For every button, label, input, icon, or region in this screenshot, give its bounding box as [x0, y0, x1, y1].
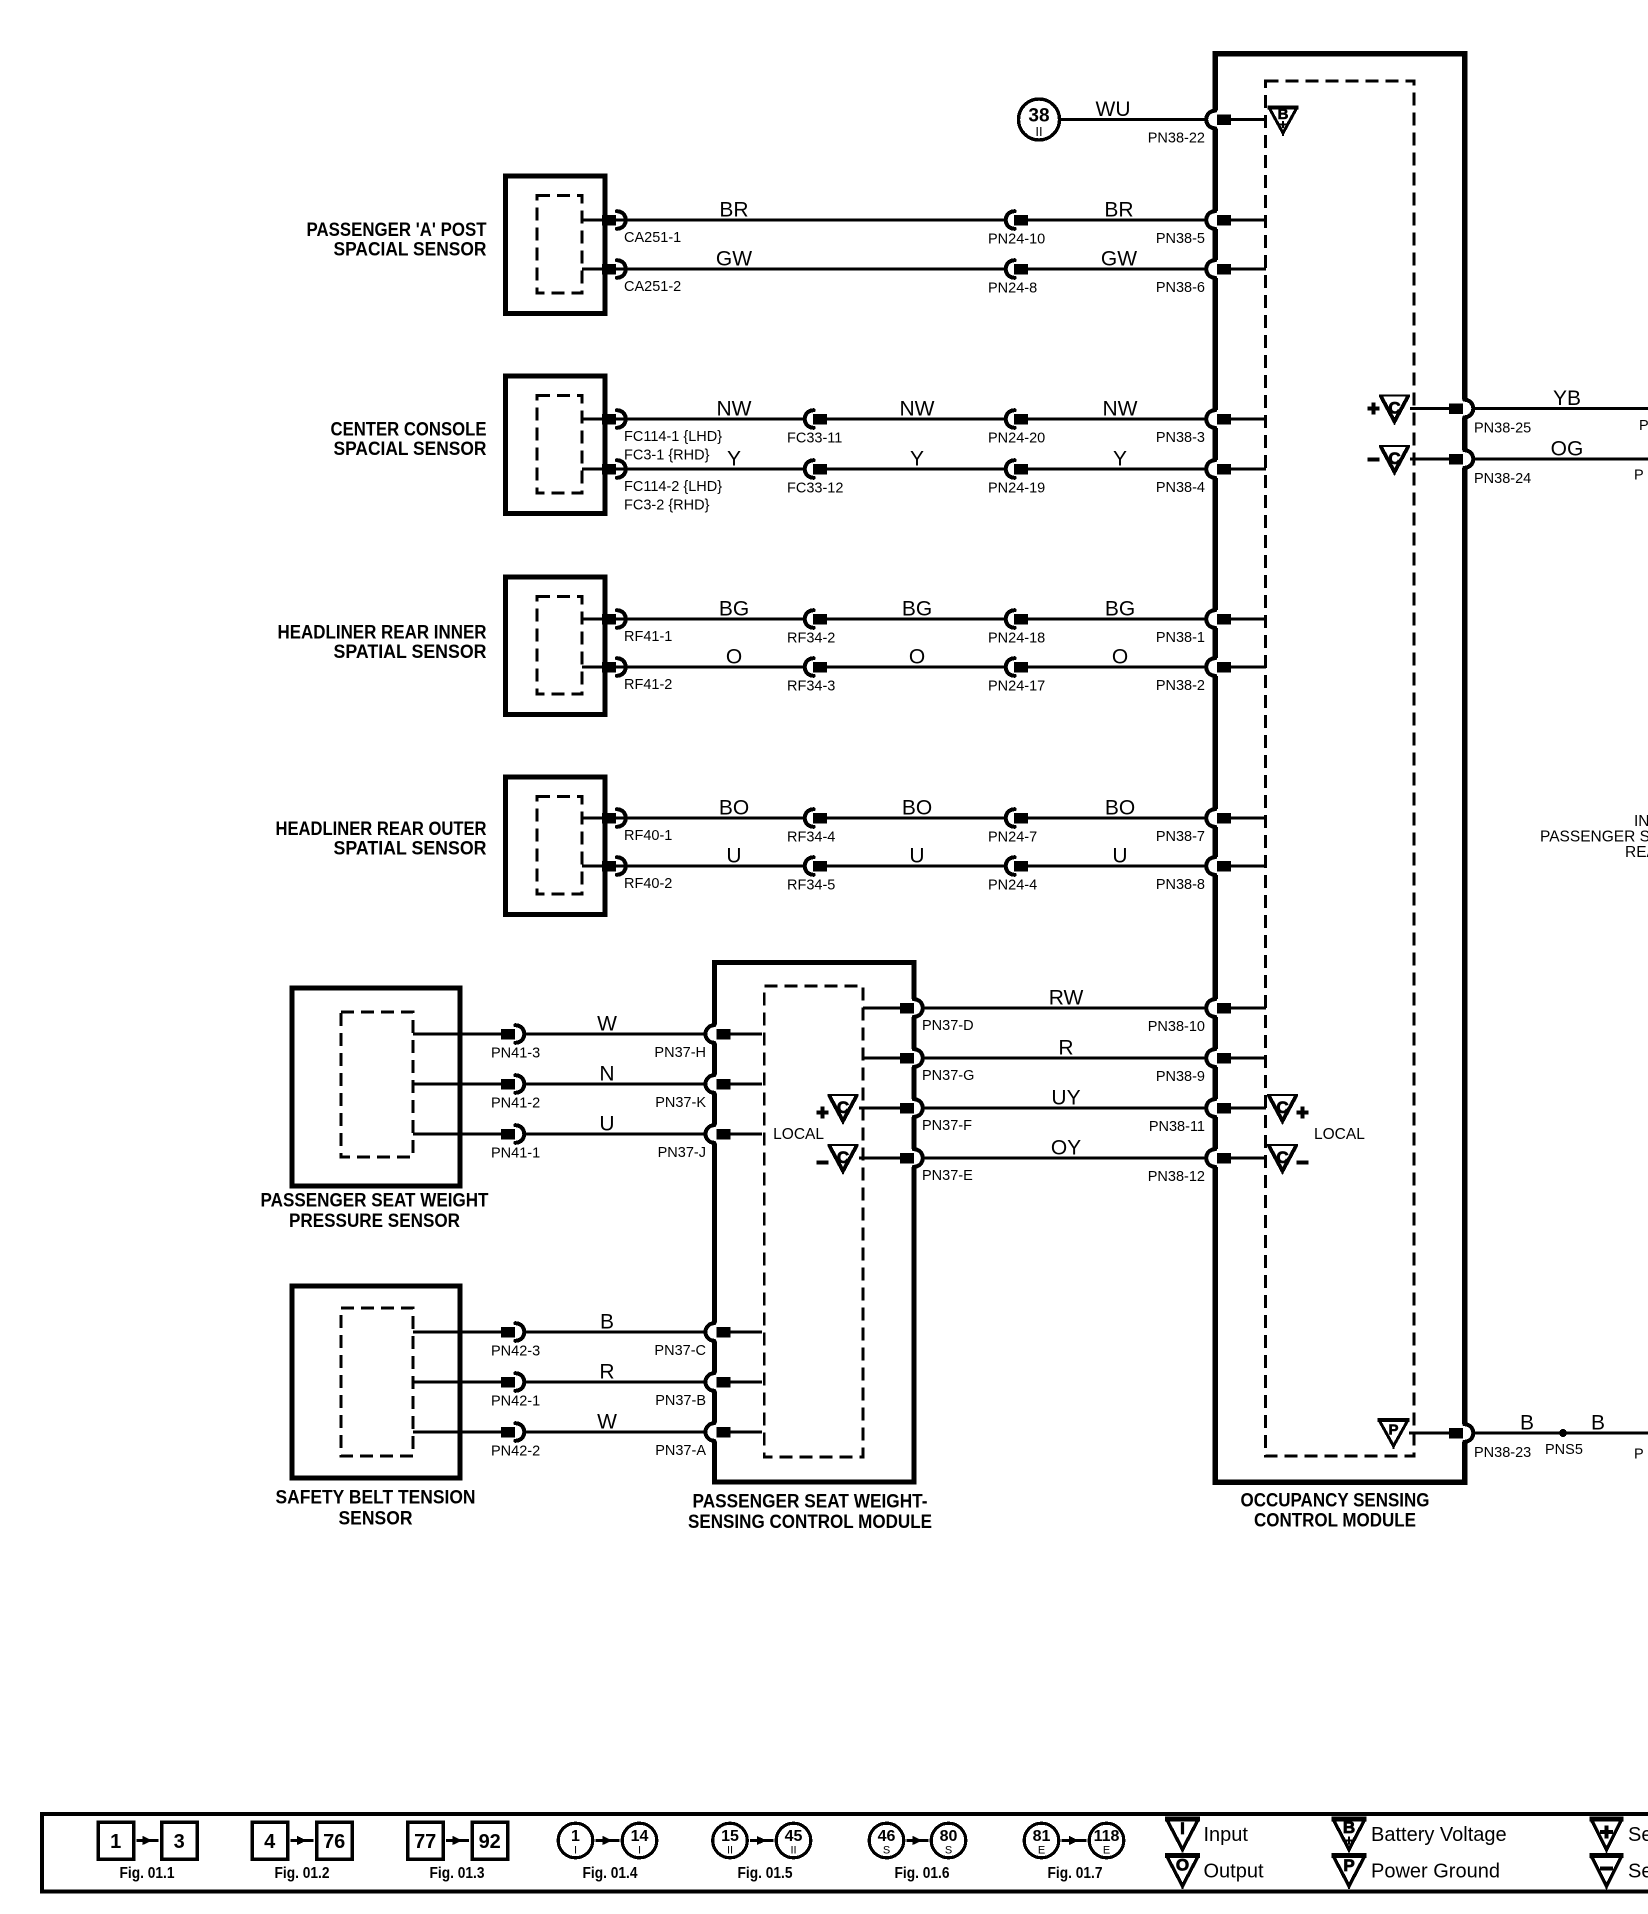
svg-text:U: U: [726, 845, 741, 868]
splice RF34-4: [787, 809, 835, 846]
legend symbol Sensor Minus (truncated): [1590, 1856, 1648, 1890]
component SAFETY BELT TENSION SENSOR: [292, 1286, 460, 1478]
svg-text:PASSENGER SEAT: PASSENGER SEAT: [1540, 829, 1648, 846]
svg-text:C: C: [837, 1098, 849, 1117]
splice PN24-4: [988, 857, 1037, 894]
pin RF41-2: [582, 658, 672, 693]
svg-text:RF40-1: RF40-1: [624, 828, 672, 844]
net label W: [597, 1411, 617, 1434]
pin PN38-6: [1156, 260, 1266, 297]
splice PN24-20: [988, 410, 1045, 447]
net label U segment 3: [1112, 845, 1127, 868]
stub wire PN37-E: [859, 1157, 901, 1160]
svg-text:Fig. 01.2: Fig. 01.2: [275, 1865, 330, 1882]
svg-text:Output: Output: [1204, 1861, 1264, 1883]
svg-text:REA: REA: [1625, 844, 1648, 861]
wire O (RF41-2 to PN38-2): [606, 666, 1208, 669]
svg-text:OY: OY: [1051, 1137, 1081, 1160]
svg-text:Fig. 01.5: Fig. 01.5: [738, 1865, 793, 1882]
pin PN38-23: [1449, 1424, 1648, 1462]
net label R: [599, 1361, 614, 1384]
pin PN38-2: [1156, 658, 1266, 695]
svg-text:O: O: [1112, 646, 1128, 669]
stub wire PN37-F: [859, 1107, 901, 1110]
svg-text:RF41-1: RF41-1: [624, 629, 672, 645]
svg-text:P: P: [1634, 1447, 1644, 1463]
junction PNS5: [1545, 1429, 1583, 1458]
pin PN37-K: [655, 1075, 762, 1112]
svg-text:PN37-A: PN37-A: [655, 1443, 706, 1459]
splice FC33-12: [787, 460, 843, 497]
stub wire PN38-23: [1409, 1432, 1452, 1435]
svg-text:PN24-8: PN24-8: [988, 281, 1037, 297]
component HEADLINER REAR OUTER SPATIAL SENSOR: [506, 777, 606, 915]
svg-text:PN24-10: PN24-10: [988, 232, 1045, 248]
legend symbol Battery Voltage: [1332, 1818, 1507, 1853]
svg-text:118: 118: [1094, 1828, 1120, 1845]
legend Fig. 01.6 (circle 46-S to 80-S): [869, 1823, 966, 1882]
svg-text:BG: BG: [902, 598, 932, 621]
legend symbol Power Ground: [1332, 1856, 1500, 1890]
local C symbol + at PN38-25: [1368, 396, 1411, 425]
svg-text:C: C: [837, 1148, 849, 1167]
svg-text:14: 14: [631, 1828, 649, 1845]
splice PN41-1: [491, 1125, 540, 1162]
net label BG segment 3: [1105, 598, 1135, 621]
pin PN38-22: [1148, 110, 1266, 147]
svg-text:PN24-19: PN24-19: [988, 481, 1045, 497]
splice PN24-17: [988, 658, 1045, 695]
pin RF40-2: [582, 857, 672, 892]
svg-text:BO: BO: [719, 797, 749, 820]
net label YB: [1553, 387, 1581, 410]
net label B (first segment): [1520, 1412, 1534, 1435]
net label GW segment 1: [716, 248, 752, 271]
wire W (PN41-3 to PN37-H): [413, 1033, 707, 1036]
svg-text:PN37-C: PN37-C: [654, 1343, 706, 1359]
svg-text:Fig. 01.6: Fig. 01.6: [895, 1865, 950, 1882]
svg-text:O: O: [726, 646, 742, 669]
svg-text:E: E: [1103, 1845, 1110, 1857]
net label NW segment 3: [1103, 398, 1138, 421]
pin PN37-G: [900, 1049, 974, 1085]
net label O segment 2: [909, 646, 925, 669]
svg-text:C: C: [1388, 449, 1400, 468]
svg-text:CA251-1: CA251-1: [624, 230, 681, 246]
svg-text:PN38-22: PN38-22: [1148, 131, 1205, 147]
legend Fig. 01.2 (sheet 4 to 76): [252, 1822, 352, 1882]
svg-text:FC114-1 {LHD}: FC114-1 {LHD}: [624, 429, 722, 445]
svg-text:PN37-E: PN37-E: [922, 1168, 973, 1184]
svg-text:W: W: [597, 1411, 617, 1434]
svg-text:R: R: [599, 1361, 614, 1384]
local C symbol + at PN37-F: [817, 1095, 859, 1124]
pin RF41-1: [582, 610, 672, 645]
svg-text:PN24-20: PN24-20: [988, 431, 1045, 447]
stub wire PN37-D: [863, 1007, 901, 1010]
legend symbol Sensor Plus (truncated): [1590, 1819, 1648, 1853]
svg-text:O: O: [909, 646, 925, 669]
net label BO segment 2: [902, 797, 932, 820]
pin PN38-4: [1156, 460, 1266, 497]
svg-text:RF40-2: RF40-2: [624, 876, 672, 892]
svg-text:92: 92: [479, 1831, 501, 1853]
net label W: [597, 1013, 617, 1036]
svg-text:PN38-25: PN38-25: [1474, 421, 1531, 437]
label PASSENGER SEAT WEIGHT-SENSING CONTROL MODULE: [688, 1492, 932, 1534]
net label N: [599, 1063, 614, 1086]
svg-text:N: N: [599, 1063, 614, 1086]
net label NW segment 2: [900, 398, 935, 421]
svg-text:Fig. 01.4: Fig. 01.4: [583, 1865, 638, 1882]
truncated label P (right edge, YB row): [1639, 418, 1648, 434]
svg-text:NW: NW: [900, 398, 935, 421]
wire BG (RF41-1 to PN38-1): [606, 618, 1208, 621]
pin PN38-3: [1156, 410, 1266, 447]
svg-text:B: B: [1520, 1412, 1534, 1435]
stub wire PN37-G: [863, 1057, 901, 1060]
net label U segment 2: [909, 845, 924, 868]
svg-text:BO: BO: [902, 797, 932, 820]
net label OY: [1051, 1137, 1081, 1160]
net label O segment 3: [1112, 646, 1128, 669]
svg-text:LOCAL: LOCAL: [1314, 1126, 1365, 1143]
net label GW segment 2: [1101, 248, 1137, 271]
svg-text:II: II: [1035, 124, 1042, 139]
net label U: [599, 1113, 614, 1136]
svg-text:FC114-2 {LHD}: FC114-2 {LHD}: [624, 479, 722, 495]
svg-text:CONTROL MODULE: CONTROL MODULE: [1254, 1511, 1416, 1532]
svg-text:PRESSURE SENSOR: PRESSURE SENSOR: [289, 1211, 460, 1232]
legend Fig. 01.3 (sheet 77 to 92): [408, 1822, 508, 1882]
svg-text:3: 3: [174, 1831, 185, 1853]
component HEADLINER REAR INNER SPATIAL SENSOR: [506, 577, 606, 715]
svg-text:PN37-J: PN37-J: [658, 1145, 706, 1161]
svg-text:II: II: [727, 1845, 733, 1857]
svg-text:Y: Y: [910, 448, 924, 471]
svg-text:OG: OG: [1551, 438, 1584, 461]
svg-text:PN38-24: PN38-24: [1474, 471, 1531, 487]
svg-text:Fig. 01.7: Fig. 01.7: [1048, 1865, 1103, 1882]
pin CA251-1: [582, 211, 681, 246]
svg-text:RF34-3: RF34-3: [787, 679, 835, 695]
splice PN42-2: [491, 1423, 540, 1460]
pin PN38-25: [1449, 399, 1648, 437]
svg-text:Fig. 01.1: Fig. 01.1: [120, 1865, 175, 1882]
svg-text:Fig. 01.3: Fig. 01.3: [430, 1865, 485, 1882]
splice PN42-3: [491, 1323, 540, 1360]
svg-text:CENTER CONSOLE: CENTER CONSOLE: [331, 420, 487, 441]
svg-text:80: 80: [940, 1828, 958, 1845]
pin PN38-10: [1148, 999, 1266, 1036]
svg-text:PN42-1: PN42-1: [491, 1394, 540, 1410]
svg-text:PN37-G: PN37-G: [922, 1068, 974, 1084]
svg-text:GW: GW: [1101, 248, 1137, 271]
local C symbol - at PN38-24: [1368, 446, 1411, 475]
pin PN37-J: [658, 1125, 762, 1162]
svg-text:P: P: [1343, 1856, 1354, 1875]
svg-text:RW: RW: [1049, 987, 1084, 1010]
svg-text:RF34-5: RF34-5: [787, 878, 835, 894]
legend Fig. 01.5 (circle 15-II to 45-II): [713, 1823, 811, 1882]
splice PN41-3: [491, 1025, 540, 1062]
svg-text:LOCAL: LOCAL: [773, 1126, 824, 1143]
component CENTER CONSOLE SPACIAL SENSOR: [506, 376, 606, 514]
local C symbol - at PN37-E: [817, 1145, 859, 1174]
net label BG segment 1: [719, 598, 749, 621]
pin PN38-1: [1156, 610, 1266, 647]
svg-text:PN37-B: PN37-B: [655, 1393, 706, 1409]
svg-text:C: C: [1276, 1098, 1288, 1117]
svg-text:C: C: [1276, 1148, 1288, 1167]
svg-text:PASSENGER SEAT WEIGHT-: PASSENGER SEAT WEIGHT-: [693, 1492, 928, 1513]
pin PN38-5: [1156, 211, 1266, 248]
svg-text:PN37-F: PN37-F: [922, 1118, 972, 1134]
svg-text:PN41-2: PN41-2: [491, 1096, 540, 1112]
svg-text:U: U: [1112, 845, 1127, 868]
net label BO segment 3: [1105, 797, 1135, 820]
wire BO (RF40-1 to PN38-7): [606, 817, 1208, 820]
svg-text:PN: PN: [1639, 418, 1648, 434]
svg-text:Sens: Sens: [1628, 1861, 1648, 1883]
svg-text:Battery Voltage: Battery Voltage: [1371, 1824, 1507, 1846]
net label R: [1058, 1037, 1073, 1060]
stub wire PN38-24: [1410, 458, 1452, 461]
pin PN37-A: [655, 1423, 762, 1460]
legend Fig. 01.4 (circle 1-I to 14-I): [558, 1823, 657, 1882]
svg-text:PN37-D: PN37-D: [922, 1018, 974, 1034]
svg-text:PN38-12: PN38-12: [1148, 1169, 1205, 1185]
svg-text:I: I: [638, 1845, 641, 1857]
svg-text:BO: BO: [1105, 797, 1135, 820]
net label Y segment 1: [727, 448, 741, 471]
net label B (second segment): [1591, 1412, 1605, 1435]
svg-text:Y: Y: [727, 448, 741, 471]
splice RF34-3: [787, 658, 835, 695]
svg-text:FC33-12: FC33-12: [787, 481, 843, 497]
splice PN24-18: [988, 610, 1045, 647]
svg-text:PN38-23: PN38-23: [1474, 1445, 1531, 1461]
splice RF34-5: [787, 857, 835, 894]
pin PN38-11: [1149, 1099, 1266, 1136]
svg-text:PN38-9: PN38-9: [1156, 1069, 1205, 1085]
component PASSENGER SEAT WEIGHT PRESSURE SENSOR: [292, 988, 460, 1186]
svg-text:4: 4: [264, 1831, 276, 1853]
svg-text:P: P: [1388, 1422, 1398, 1439]
svg-text:B: B: [1343, 1818, 1355, 1837]
svg-text:I: I: [1180, 1819, 1185, 1838]
net label O segment 1: [726, 646, 742, 669]
pin PN37-H: [654, 1025, 762, 1062]
svg-text:Y: Y: [1113, 448, 1127, 471]
splice PN24-10: [988, 211, 1045, 248]
svg-text:SPATIAL SENSOR: SPATIAL SENSOR: [334, 642, 487, 663]
svg-text:O: O: [1176, 1856, 1189, 1875]
svg-text:CA251-2: CA251-2: [624, 279, 681, 295]
net label B: [600, 1311, 614, 1334]
svg-text:I: I: [574, 1845, 577, 1857]
legend Fig. 01.7 (circle 81-E to 118-E): [1024, 1823, 1124, 1882]
legend border: [42, 1814, 1648, 1892]
pin FC114-1: [582, 410, 722, 463]
splice PN24-19: [988, 460, 1045, 497]
wire RW (PN37-D to PN38-10): [921, 1007, 1208, 1010]
pin PN38-12: [1148, 1149, 1266, 1186]
svg-text:U: U: [599, 1113, 614, 1136]
pin PN38-24: [1449, 450, 1648, 488]
svg-text:RF34-2: RF34-2: [787, 631, 835, 647]
svg-text:PN38-11: PN38-11: [1149, 1119, 1205, 1135]
net label UY: [1051, 1087, 1080, 1110]
svg-text:HEADLINER REAR OUTER: HEADLINER REAR OUTER: [276, 819, 487, 840]
wire B (PN42-3 to PN37-C): [413, 1331, 707, 1334]
label HEADLINER REAR INNER SPATIAL SENSOR: [278, 622, 487, 663]
label LOCAL (PSWS side): [773, 1126, 824, 1143]
splice PN41-2: [491, 1075, 540, 1112]
pin PN37-D: [900, 999, 974, 1035]
svg-text:U: U: [909, 845, 924, 868]
truncated note (right edge): IN / PASSENGER SE / RE: [1540, 813, 1648, 861]
svg-text:PN38-3: PN38-3: [1156, 430, 1205, 446]
svg-text:PN24-7: PN24-7: [988, 830, 1037, 846]
net label BR segment 2: [1104, 199, 1133, 222]
svg-text:BG: BG: [1105, 598, 1135, 621]
svg-text:HEADLINER REAR INNER: HEADLINER REAR INNER: [278, 622, 487, 643]
svg-text:E: E: [1038, 1845, 1045, 1857]
svg-text:PN38-1: PN38-1: [1156, 630, 1205, 646]
pin RF40-1: [582, 809, 672, 844]
pin PN37-E: [900, 1149, 973, 1185]
svg-text:YB: YB: [1553, 387, 1581, 410]
svg-text:Power Ground: Power Ground: [1371, 1861, 1500, 1883]
label LOCAL (OCM left side): [1314, 1126, 1365, 1143]
local C symbol - at PN38-12: [1267, 1145, 1309, 1174]
svg-text:II: II: [790, 1845, 796, 1857]
net label RW: [1049, 987, 1084, 1010]
svg-text:PN37-H: PN37-H: [654, 1045, 706, 1061]
svg-text:OCCUPANCY SENSING: OCCUPANCY SENSING: [1241, 1491, 1430, 1512]
svg-text:SPACIAL SENSOR: SPACIAL SENSOR: [334, 439, 487, 460]
wire W (PN42-2 to PN37-A): [413, 1431, 707, 1434]
label CENTER CONSOLE SPACIAL SENSOR: [331, 420, 487, 461]
svg-text:Input: Input: [1204, 1824, 1249, 1846]
svg-text:76: 76: [323, 1831, 345, 1853]
svg-text:R: R: [1058, 1037, 1073, 1060]
svg-text:PN41-1: PN41-1: [491, 1146, 540, 1162]
svg-text:Sens: Sens: [1628, 1824, 1648, 1846]
net label U segment 1: [726, 845, 741, 868]
svg-text:PN38-7: PN38-7: [1156, 829, 1205, 845]
svg-text:PN24-17: PN24-17: [988, 679, 1045, 695]
wire N (PN41-2 to PN37-K): [413, 1083, 707, 1086]
svg-text:BG: BG: [719, 598, 749, 621]
svg-text:PN38-10: PN38-10: [1148, 1019, 1205, 1035]
net label NW segment 1: [717, 398, 752, 421]
svg-text:C: C: [1388, 399, 1400, 418]
svg-text:PN24-18: PN24-18: [988, 631, 1045, 647]
svg-text:RF41-2: RF41-2: [624, 677, 672, 693]
svg-text:BR: BR: [1104, 199, 1133, 222]
svg-text:GW: GW: [716, 248, 752, 271]
svg-text:FC33-11: FC33-11: [787, 431, 842, 447]
svg-text:B: B: [600, 1311, 614, 1334]
truncated label P (right edge, B row): [1634, 1447, 1644, 1463]
pin PN37-F: [900, 1099, 972, 1135]
wire R (PN42-1 to PN37-B): [413, 1381, 707, 1384]
pin CA251-2: [582, 260, 681, 295]
svg-text:NW: NW: [717, 398, 752, 421]
svg-text:PASSENGER 'A' POST: PASSENGER 'A' POST: [307, 220, 487, 241]
svg-text:FC3-1 {RHD}: FC3-1 {RHD}: [624, 448, 710, 464]
svg-text:B: B: [1278, 106, 1289, 123]
net label WU: [1096, 98, 1131, 121]
wire WU (circle 38 to PN38-22): [1060, 118, 1209, 121]
connector circle 38 (fig ref): [1019, 99, 1060, 140]
label HEADLINER REAR OUTER SPATIAL SENSOR: [276, 819, 487, 860]
svg-text:B: B: [1591, 1412, 1605, 1435]
svg-text:PN38-4: PN38-4: [1156, 480, 1205, 496]
svg-text:1: 1: [110, 1831, 121, 1853]
svg-text:45: 45: [785, 1828, 803, 1845]
net label Y segment 3: [1113, 448, 1127, 471]
wire Y (FC114-2 to PN38-4): [606, 468, 1208, 471]
splice FC33-11: [787, 410, 842, 447]
svg-text:PN38-2: PN38-2: [1156, 678, 1205, 694]
svg-text:FC3-2 {RHD}: FC3-2 {RHD}: [624, 498, 710, 514]
svg-text:S: S: [883, 1845, 890, 1857]
svg-text:W: W: [597, 1013, 617, 1036]
svg-text:PN42-3: PN42-3: [491, 1344, 540, 1360]
local C symbol + at PN38-11: [1267, 1095, 1309, 1124]
splice PN42-1: [491, 1373, 540, 1410]
legend symbol Input: [1165, 1819, 1248, 1853]
svg-text:81: 81: [1033, 1828, 1051, 1845]
pin PN38-8: [1156, 857, 1266, 894]
label PASSENGER SEAT WEIGHT PRESSURE SENSOR: [261, 1191, 489, 1233]
pin PN38-9: [1156, 1049, 1266, 1086]
svg-text:SENSOR: SENSOR: [339, 1509, 413, 1530]
splice PN24-8: [988, 260, 1037, 297]
component PASSENGER SEAT WEIGHT-SENSING CONTROL MODULE: [714, 962, 914, 1482]
svg-text:WU: WU: [1096, 98, 1131, 121]
wire UY (PN37-F to PN38-11): [921, 1107, 1208, 1110]
wire U (RF40-2 to PN38-8): [606, 865, 1208, 868]
svg-text:SPACIAL SENSOR: SPACIAL SENSOR: [334, 240, 487, 261]
wire BR (CA251-1 to PN38-5): [606, 219, 1208, 222]
legend Fig. 01.1 (sheet 1 to 3): [98, 1822, 197, 1882]
svg-text:PN38-8: PN38-8: [1156, 877, 1205, 893]
svg-text:PN38-6: PN38-6: [1156, 280, 1205, 296]
svg-text:PASSENGER SEAT WEIGHT: PASSENGER SEAT WEIGHT: [261, 1191, 489, 1212]
power ground symbol P at PN38-23: [1378, 1420, 1410, 1449]
net label OG: [1551, 438, 1584, 461]
net label BO segment 1: [719, 797, 749, 820]
net label BG segment 2: [902, 598, 932, 621]
svg-text:SPATIAL SENSOR: SPATIAL SENSOR: [334, 838, 487, 859]
svg-text:RF34-4: RF34-4: [787, 830, 835, 846]
svg-text:S: S: [945, 1845, 952, 1857]
stub wire PN38-25: [1410, 407, 1452, 410]
splice PN24-7: [988, 809, 1037, 846]
wire U (PN41-1 to PN37-J): [413, 1133, 707, 1136]
truncated label P (right edge, OG row): [1634, 468, 1644, 484]
battery voltage symbol B at PN38-22: [1268, 106, 1299, 136]
svg-text:NW: NW: [1103, 398, 1138, 421]
svg-text:PN24-4: PN24-4: [988, 878, 1037, 894]
net label Y segment 2: [910, 448, 924, 471]
net label BR segment 1: [719, 199, 748, 222]
svg-text:SAFETY BELT TENSION: SAFETY BELT TENSION: [276, 1488, 476, 1509]
